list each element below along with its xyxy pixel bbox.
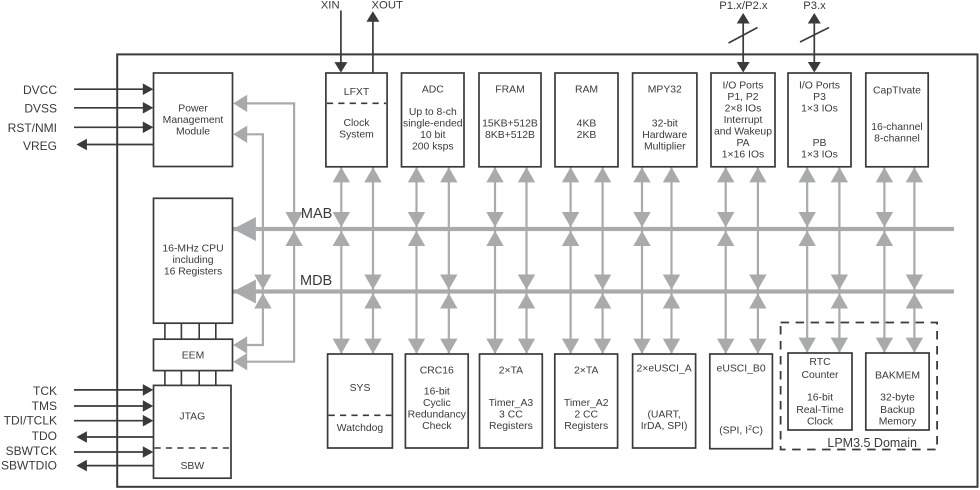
svg-text:Cyclic: Cyclic: [423, 398, 451, 409]
svg-text:MDB: MDB: [300, 273, 332, 289]
wire ADC-CRC16 left column (MAB): [408, 167, 425, 354]
svg-text:16-MHz CPU: 16-MHz CPU: [162, 244, 223, 255]
svg-text:(SPI, I2C): (SPI, I2C): [719, 425, 763, 437]
wire RAM-TimerA2 left column (MAB): [562, 167, 579, 354]
block Timer_A2: [555, 354, 618, 448]
pin P3.x: [800, 0, 829, 72]
pin TMS: [32, 399, 154, 413]
svg-text:TCK: TCK: [33, 384, 57, 398]
svg-text:SYS: SYS: [350, 383, 371, 394]
svg-text:TMS: TMS: [32, 399, 57, 413]
block CRC16: [405, 354, 468, 448]
block I/O Ports P3: [788, 73, 851, 167]
wire IOP3-RTC right column (MDB): [831, 167, 848, 353]
svg-text:XIN: XIN: [321, 0, 340, 11]
svg-text:Up to 8-ch: Up to 8-ch: [409, 107, 457, 118]
block LFXT / Clock System: [326, 73, 387, 167]
block FRAM: [479, 73, 541, 167]
MAB bus: [233, 217, 954, 241]
svg-text:Clock: Clock: [344, 118, 371, 129]
wire ADC-CRC16 right column (MDB): [440, 167, 457, 354]
block RAM: [555, 73, 618, 167]
svg-text:VREG: VREG: [23, 139, 57, 153]
svg-text:I/O Ports: I/O Ports: [723, 80, 764, 91]
block ADC: [402, 73, 465, 167]
svg-text:16 Registers: 16 Registers: [164, 266, 222, 277]
wire FRAM-TimerA3 left column (MAB): [486, 167, 503, 354]
svg-text:PB: PB: [813, 138, 827, 149]
svg-text:RAM: RAM: [575, 84, 598, 95]
svg-text:Management: Management: [163, 115, 224, 126]
svg-text:TDI/TCLK: TDI/TCLK: [4, 414, 57, 428]
wire RAM-TimerA2 right column (MDB): [594, 167, 611, 354]
LPM3.5 Domain dashed box: [781, 323, 938, 450]
wire IOP3-RTC left column (MAB): [799, 167, 816, 353]
svg-text:PA: PA: [736, 138, 749, 149]
svg-text:including: including: [172, 255, 213, 266]
svg-text:IrDA, SPI): IrDA, SPI): [641, 421, 688, 432]
svg-text:Module: Module: [176, 126, 210, 137]
wire IOP12-eUSCIB0 left column (MAB): [717, 167, 734, 354]
svg-text:4KB: 4KB: [577, 119, 597, 130]
svg-text:P1, P2: P1, P2: [727, 92, 758, 103]
block eUSCI_B0: [710, 354, 773, 449]
svg-text:and Wakeup: and Wakeup: [714, 126, 772, 137]
svg-text:P3.x: P3.x: [803, 0, 826, 12]
svg-text:MAB: MAB: [301, 206, 332, 222]
outer device border: [117, 54, 977, 486]
svg-text:Registers: Registers: [564, 421, 608, 432]
svg-text:1×16 IOs: 1×16 IOs: [722, 149, 764, 160]
svg-text:16-bit: 16-bit: [424, 386, 450, 397]
svg-text:CRC16: CRC16: [420, 366, 454, 377]
svg-text:FRAM: FRAM: [495, 84, 524, 95]
svg-text:single-ended: single-ended: [403, 119, 463, 130]
svg-text:2×TA: 2×TA: [574, 366, 598, 377]
svg-text:System: System: [339, 130, 374, 141]
wire EEM-JTAG stubs: [165, 371, 216, 386]
wire PMM to MDB: [233, 126, 271, 290]
svg-text:RTC: RTC: [809, 357, 831, 368]
svg-text:BAKMEM: BAKMEM: [875, 371, 920, 382]
svg-text:LFXT: LFXT: [344, 87, 370, 98]
pin DVSS: [24, 102, 153, 116]
wire MAB to EEM: [233, 231, 303, 371]
wire PMM to MAB: [233, 95, 303, 228]
block Power Management Module: [154, 73, 233, 167]
svg-text:ADC: ADC: [422, 84, 444, 95]
svg-text:SBW: SBW: [180, 461, 204, 472]
block RTC Counter: [788, 353, 852, 430]
svg-text:DVSS: DVSS: [24, 102, 57, 116]
svg-text:3 CC: 3 CC: [499, 409, 523, 420]
block CPU: [154, 198, 233, 323]
svg-text:Counter: Counter: [802, 370, 840, 381]
svg-text:TDO: TDO: [32, 429, 57, 443]
wire CPU-EEM stubs: [165, 323, 216, 339]
pin SBWTCK: [6, 444, 154, 458]
block BAKMEM: [866, 353, 929, 430]
svg-text:P3: P3: [813, 92, 826, 103]
pin XOUT: [366, 0, 403, 73]
svg-text:15KB+512B: 15KB+512B: [482, 119, 538, 130]
pin TDI/TCLK: [4, 414, 154, 428]
svg-text:1×3 IOs: 1×3 IOs: [801, 149, 838, 160]
svg-text:Timer_A3: Timer_A3: [489, 398, 534, 409]
wire CapTIvate-BAKMEM right column (MDB): [906, 167, 923, 353]
svg-text:Check: Check: [422, 421, 452, 432]
pin TDO: [32, 429, 154, 443]
block eUSCI_A: [633, 354, 696, 448]
svg-text:DVCC: DVCC: [23, 83, 57, 97]
svg-text:Redundancy: Redundancy: [408, 409, 467, 420]
pin TCK: [33, 384, 153, 398]
svg-text:8-channel: 8-channel: [874, 134, 920, 145]
svg-text:I/O Ports: I/O Ports: [799, 80, 840, 91]
svg-text:MPY32: MPY32: [648, 84, 682, 95]
svg-text:16-channel: 16-channel: [871, 122, 922, 133]
block JTAG / SBW: [154, 385, 232, 478]
svg-text:Interrupt: Interrupt: [724, 115, 763, 126]
svg-text:10 bit: 10 bit: [420, 130, 446, 141]
wire IOP12-eUSCIB0 right column (MDB): [749, 167, 766, 354]
svg-text:Memory: Memory: [879, 416, 917, 427]
pin DVCC: [23, 83, 153, 97]
svg-text:LPM3.5 Domain: LPM3.5 Domain: [827, 436, 917, 450]
block I/O Ports P1,P2: [711, 73, 775, 167]
block CapTIvate: [866, 73, 928, 167]
block EEM: [154, 339, 233, 370]
svg-text:32-bit: 32-bit: [652, 119, 678, 130]
svg-text:Clock: Clock: [807, 416, 834, 427]
svg-text:Backup: Backup: [880, 405, 915, 416]
svg-text:2×eUSCI_A: 2×eUSCI_A: [637, 363, 692, 374]
svg-text:XOUT: XOUT: [372, 0, 403, 11]
svg-text:2×8 IOs: 2×8 IOs: [725, 103, 762, 114]
pin VREG: [23, 139, 154, 153]
svg-text:P1.x/P2.x: P1.x/P2.x: [719, 0, 768, 12]
svg-text:8KB+512B: 8KB+512B: [485, 130, 535, 141]
svg-text:200 ksps: 200 ksps: [412, 142, 454, 153]
svg-text:(UART,: (UART,: [647, 409, 680, 420]
block Timer_A3: [480, 354, 543, 448]
svg-text:CapTIvate: CapTIvate: [873, 86, 921, 97]
svg-text:Timer_A2: Timer_A2: [564, 398, 609, 409]
svg-text:Hardware: Hardware: [642, 130, 687, 141]
svg-text:Power: Power: [178, 103, 208, 114]
svg-text:Multiplier: Multiplier: [644, 142, 686, 153]
wire MPY32-eUSCIA right column (MDB): [663, 167, 680, 354]
svg-text:eUSCI_B0: eUSCI_B0: [717, 363, 766, 374]
svg-text:2×TA: 2×TA: [499, 366, 523, 377]
wire LFXT-SYS right column (MDB): [364, 167, 381, 354]
pin XIN: [321, 0, 348, 73]
svg-text:1×3 IOs: 1×3 IOs: [801, 103, 838, 114]
svg-text:16-bit: 16-bit: [807, 393, 833, 404]
wire MPY32-eUSCIA left column (MAB): [633, 167, 650, 354]
svg-text:SBWTDIO: SBWTDIO: [1, 459, 57, 473]
svg-text:Watchdog: Watchdog: [337, 423, 384, 434]
wire FRAM-TimerA3 right column (MDB): [518, 167, 535, 354]
block MPY32: [633, 73, 697, 167]
svg-text:Real-Time: Real-Time: [796, 405, 844, 416]
block SYS / Watchdog: [328, 354, 393, 448]
svg-text:32-byte: 32-byte: [880, 393, 915, 404]
wire CapTIvate-BAKMEM left column (MAB): [876, 167, 893, 353]
wire MDB to EEM: [233, 293, 271, 353]
svg-text:JTAG: JTAG: [179, 412, 205, 423]
svg-text:Registers: Registers: [489, 421, 533, 432]
svg-text:EEM: EEM: [182, 351, 205, 362]
wire LFXT-SYS left column (MAB): [333, 167, 350, 354]
svg-text:RST/NMI: RST/NMI: [8, 121, 57, 135]
svg-text:2 CC: 2 CC: [574, 409, 598, 420]
pin SBWTDIO: [1, 459, 154, 473]
pin P1.x/P2.x: [719, 0, 768, 72]
MDB bus: [233, 280, 954, 304]
svg-text:SBWTCK: SBWTCK: [6, 444, 57, 458]
pin RST/NMI: [8, 121, 154, 135]
svg-text:2KB: 2KB: [577, 130, 597, 141]
